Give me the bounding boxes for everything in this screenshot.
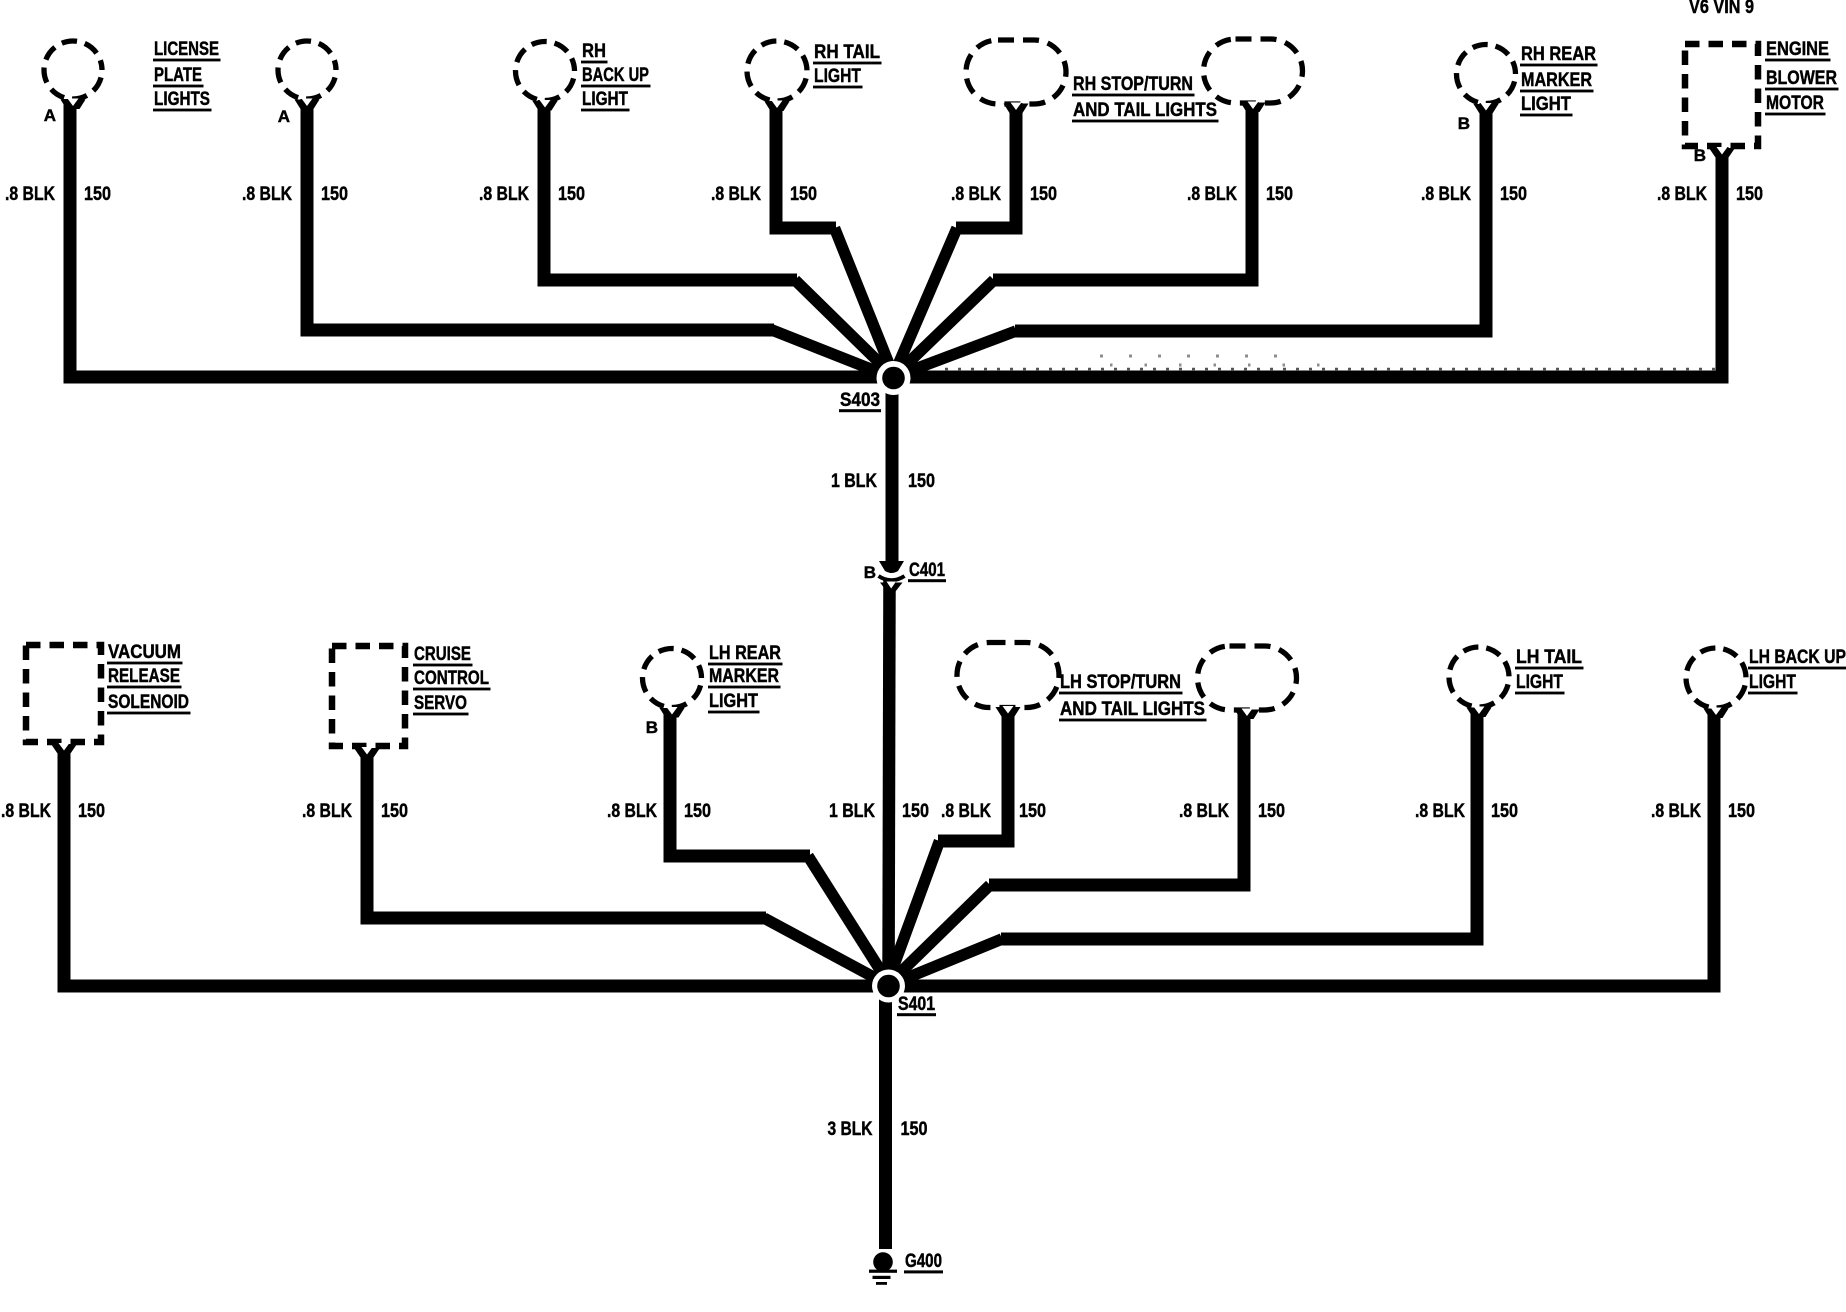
svg-text:B: B	[1694, 146, 1706, 165]
svg-text:C401: C401	[909, 560, 945, 581]
splice S401 junction dot	[872, 970, 905, 1003]
component: engine blower motor (dashed box)	[1685, 44, 1758, 158]
svg-text:150: 150	[1728, 801, 1755, 822]
svg-text:150: 150	[1491, 801, 1518, 822]
wire: diagonal from RH stop/turn lamp2 level into S403	[892, 280, 995, 379]
svg-text:LH REAR: LH REAR	[709, 643, 781, 664]
wire: diagonal from LH rear marker level into S401	[808, 856, 891, 987]
wire: LH tail light drop to level y939	[1001, 710, 1477, 939]
svg-text:150: 150	[1266, 184, 1293, 205]
label: RH STOP/TURN AND TAIL LIGHTS	[1072, 74, 1219, 122]
svg-text:PLATE: PLATE	[154, 65, 202, 86]
svg-text:150: 150	[321, 184, 348, 205]
lamp: LH stop/turn and tail lamp 1 (oval bulb)	[957, 643, 1059, 717]
lamp: license plate light (left bulb)	[44, 41, 102, 109]
svg-text:150: 150	[902, 801, 929, 822]
svg-text:LIGHT: LIGHT	[1516, 672, 1563, 693]
svg-text:.8 BLK: .8 BLK	[1657, 184, 1707, 205]
wire: license plate light A(right) drop to level y330	[307, 99, 774, 330]
svg-text:.8 BLK: .8 BLK	[711, 184, 761, 205]
component: vacuum release solenoid (dashed box)	[26, 645, 101, 754]
svg-text:AND TAIL LIGHTS: AND TAIL LIGHTS	[1073, 100, 1217, 121]
svg-text:150: 150	[84, 184, 111, 205]
lamp: LH stop/turn and tail lamp 2 (oval bulb)	[1198, 646, 1297, 719]
label: 1 BLK 150 (C401 to S401)	[829, 801, 929, 822]
svg-text:.8 BLK: .8 BLK	[607, 801, 657, 822]
label: .8 BLK 150 (engine blower)	[1657, 184, 1763, 205]
wire: LH stop/turn lamp1 drop with jog at y841	[938, 709, 1008, 841]
label: 3 BLK 150 (S401 to G400)	[828, 1119, 928, 1140]
wire: diagonal from cruise servo level into S401	[764, 918, 891, 987]
wire: vacuum release solenoid down and along bus to splice S401	[64, 746, 888, 986]
svg-text:LICENSE: LICENSE	[154, 39, 219, 60]
svg-text:.8 BLK: .8 BLK	[5, 184, 55, 205]
svg-text:S401: S401	[898, 994, 935, 1015]
svg-text:LH BACK UP: LH BACK UP	[1749, 647, 1846, 668]
label G400	[904, 1251, 943, 1273]
svg-text:1 BLK: 1 BLK	[831, 471, 877, 492]
svg-text:MARKER: MARKER	[1521, 70, 1592, 91]
svg-text:CRUISE: CRUISE	[414, 644, 471, 665]
svg-text:150: 150	[901, 1119, 928, 1140]
svg-text:.8 BLK: .8 BLK	[302, 801, 352, 822]
svg-text:150: 150	[1030, 184, 1057, 205]
svg-text:SERVO: SERVO	[414, 693, 467, 714]
lamp: RH tail light bulb	[747, 41, 807, 111]
svg-text:.8 BLK: .8 BLK	[1651, 801, 1701, 822]
wire: RH back up light drop to level y280	[544, 100, 797, 280]
wire: 1 BLK 150 from S403 down to connector C401	[886, 378, 899, 564]
label: RH REAR MARKER LIGHT	[1520, 44, 1598, 116]
svg-text:LIGHTS: LIGHTS	[154, 89, 210, 110]
svg-text:150: 150	[381, 801, 408, 822]
lamp: LH back up light bulb	[1686, 648, 1746, 718]
wire: RH stop/turn lamp1 drop with jog at y228	[956, 103, 1016, 228]
svg-text:3 BLK: 3 BLK	[828, 1119, 873, 1140]
svg-text:LIGHT: LIGHT	[1749, 672, 1796, 693]
label: .8 BLK 150 (LH tail)	[1415, 801, 1518, 822]
connector C401 symbol (in-line connector halves)	[879, 561, 905, 592]
svg-text:150: 150	[790, 184, 817, 205]
label S403	[839, 390, 881, 412]
svg-text:RH TAIL: RH TAIL	[814, 42, 880, 63]
svg-text:LH TAIL: LH TAIL	[1516, 647, 1582, 668]
label: .8 BLK 150 (RH stop/turn 2)	[1187, 184, 1293, 205]
label: VACUUM RELEASE SOLENOID	[107, 642, 191, 714]
svg-text:.8 BLK: .8 BLK	[1187, 184, 1237, 205]
ground symbol G400	[869, 1252, 897, 1285]
label: .8 BLK 150 (cruise servo)	[302, 801, 408, 822]
label: .8 BLK 150 (LH rear marker)	[607, 801, 711, 822]
svg-text:ENGINE: ENGINE	[1766, 39, 1829, 60]
svg-text:.8 BLK: .8 BLK	[1, 801, 51, 822]
svg-text:A: A	[44, 106, 56, 125]
wire: 3 BLK 150 from S401 down to ground G400	[879, 986, 892, 1249]
svg-text:RH REAR: RH REAR	[1521, 44, 1596, 65]
svg-text:AND TAIL LIGHTS: AND TAIL LIGHTS	[1060, 699, 1205, 720]
lamp: LH tail light bulb	[1449, 647, 1509, 717]
lamp: RH stop/turn and tail lamp 2 (oval bulb)	[1204, 39, 1303, 112]
svg-text:.8 BLK: .8 BLK	[941, 801, 991, 822]
svg-text:.8 BLK: .8 BLK	[242, 184, 292, 205]
svg-text:150: 150	[1258, 801, 1285, 822]
splice S403 junction dot	[877, 361, 911, 395]
label S401	[897, 994, 936, 1016]
wire: diagonal from RH stop/turn lamp1 jog into S403	[892, 228, 957, 379]
svg-text:MARKER: MARKER	[709, 666, 779, 687]
svg-text:S403: S403	[840, 390, 880, 411]
svg-text:CONTROL: CONTROL	[414, 668, 489, 689]
wire: diagonal from RH back up level into S403	[795, 280, 896, 379]
svg-text:150: 150	[1500, 184, 1527, 205]
component: cruise control servo (dashed box)	[332, 646, 405, 758]
label: LH TAIL LIGHT	[1515, 647, 1584, 694]
label C401	[908, 560, 946, 582]
svg-text:150: 150	[684, 801, 711, 822]
wire: diagonal from LH tail level into S401	[887, 939, 1002, 986]
svg-text:LIGHT: LIGHT	[582, 89, 628, 110]
svg-text:B: B	[1458, 114, 1470, 133]
svg-text:G400: G400	[905, 1251, 942, 1272]
svg-text:.8 BLK: .8 BLK	[479, 184, 529, 205]
wire: diagonal from license light level into S403	[772, 330, 896, 379]
wire: LH rear marker light drop to level y856	[670, 710, 810, 856]
label: .8 BLK 150 (license left)	[5, 184, 111, 205]
wire: RH tail light drop with jog at y228	[776, 101, 836, 228]
wire: LH stop/turn lamp2 drop to level y885	[989, 711, 1244, 885]
wire: 1 BLK 150 from connector C401 down to splice S401	[889, 580, 890, 986]
svg-text:LH STOP/TURN: LH STOP/TURN	[1060, 672, 1181, 693]
svg-text:150: 150	[78, 801, 105, 822]
label: .8 BLK 150 (LH back up)	[1651, 801, 1755, 822]
label: .8 BLK 150 (vacuum solenoid)	[1, 801, 105, 822]
label: 1 BLK 150 (S403 to C401)	[831, 471, 935, 492]
label: LICENSE PLATE LIGHTS	[153, 39, 221, 111]
label: .8 BLK 150 (RH tail)	[711, 184, 817, 205]
wire: RH stop/turn lamp2 drop to level y280	[993, 102, 1252, 280]
wire: diagonal from RH rear marker level into S403	[891, 331, 1016, 378]
svg-text:VACUUM: VACUUM	[108, 642, 181, 663]
label: .8 BLK 150 (RH stop/turn 1)	[951, 184, 1057, 205]
svg-text:V6 VIN 9: V6 VIN 9	[1689, 0, 1754, 18]
lamp: RH rear marker light bulb	[1457, 45, 1516, 114]
wire: diagonal from LH stop/turn lamp2 level into S401	[887, 885, 991, 986]
wire: cruise control servo drop to level y918	[367, 749, 766, 918]
wire: diagonal from LH stop/turn lamp1 jog into S401	[886, 841, 940, 987]
lamp: RH back up light bulb	[516, 42, 575, 111]
wire: license plate light A(left) down and along bus to splice S403	[70, 99, 894, 377]
svg-text:LIGHT: LIGHT	[814, 66, 861, 87]
svg-text:LIGHT: LIGHT	[709, 691, 758, 712]
scan noise speckles above right bus	[945, 356, 1722, 369]
svg-text:RELEASE: RELEASE	[108, 666, 180, 687]
lamp: LH rear marker light bulb	[643, 649, 702, 718]
wire: RH rear marker light drop to level y331	[1015, 103, 1486, 331]
label: LH REAR MARKER LIGHT	[708, 643, 783, 713]
label: .8 BLK 150 (LH stop/turn 1)	[941, 801, 1046, 822]
wire: LH back up light down and along bus to splice S401	[889, 711, 1714, 986]
svg-text:150: 150	[1019, 801, 1046, 822]
wire: engine blower motor down and along bus to splice S403	[893, 147, 1722, 377]
svg-text:150: 150	[908, 471, 935, 492]
svg-text:.8 BLK: .8 BLK	[1415, 801, 1465, 822]
lamp: license plate light (right bulb)	[278, 41, 336, 109]
svg-text:RH: RH	[582, 41, 606, 62]
label: CRUISE CONTROL SERVO	[413, 644, 491, 715]
svg-text:BACK UP: BACK UP	[582, 65, 649, 86]
svg-text:B: B	[646, 718, 658, 737]
label: .8 BLK 150 (LH stop/turn 2)	[1179, 801, 1285, 822]
svg-text:150: 150	[558, 184, 585, 205]
svg-text:.8 BLK: .8 BLK	[951, 184, 1001, 205]
label: LH BACK UP LIGHT	[1748, 647, 1846, 694]
svg-text:A: A	[278, 107, 290, 126]
lamp: RH stop/turn and tail lamp 1 (oval bulb)	[966, 40, 1066, 113]
svg-text:LIGHT: LIGHT	[1521, 94, 1571, 115]
wire: diagonal from RH tail jog into S403	[835, 228, 896, 379]
label: .8 BLK 150 (RH back up)	[479, 184, 585, 205]
label: .8 BLK 150 (license right)	[242, 184, 348, 205]
label: RH TAIL LIGHT	[813, 42, 882, 88]
svg-text:B: B	[864, 563, 876, 582]
label: .8 BLK 150 (RH rear marker)	[1421, 184, 1527, 205]
svg-text:.8 BLK: .8 BLK	[1421, 184, 1471, 205]
svg-text:SOLENOID: SOLENOID	[108, 692, 189, 713]
svg-text:150: 150	[1736, 184, 1763, 205]
svg-text:1 BLK: 1 BLK	[829, 801, 875, 822]
label: LH STOP/TURN AND TAIL LIGHTS	[1059, 672, 1207, 721]
label: ENGINE BLOWER MOTOR	[1765, 39, 1839, 115]
svg-text:BLOWER: BLOWER	[1766, 68, 1837, 89]
svg-text:RH STOP/TURN: RH STOP/TURN	[1073, 74, 1193, 95]
label: RH BACK UP LIGHT	[581, 41, 651, 111]
svg-text:.8 BLK: .8 BLK	[1179, 801, 1229, 822]
svg-text:MOTOR: MOTOR	[1766, 93, 1824, 114]
